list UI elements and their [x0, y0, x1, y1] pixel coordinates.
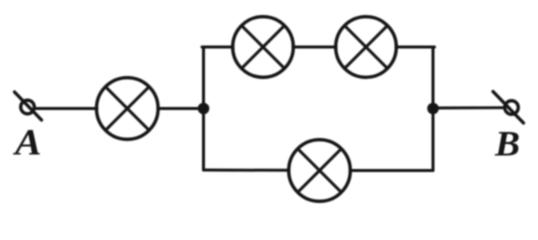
wire bottom-left to lamp L4 — [204, 169, 290, 172]
node 1 junction dot — [198, 103, 210, 115]
wire right vertical branch — [432, 47, 435, 171]
wire L1 to node 1 — [158, 107, 204, 110]
terminal A — [15, 92, 42, 120]
wire L2 to L3 — [293, 46, 336, 49]
svg-text:B: B — [494, 124, 520, 164]
wire L4 to bottom-right corner — [350, 169, 433, 172]
lamp L1 — [97, 78, 159, 140]
wire L3 to top-right corner — [396, 46, 435, 49]
wire node 2 to terminal B — [433, 106, 503, 109]
wire A to lamp L1 — [35, 107, 98, 110]
wire left vertical branch — [202, 47, 205, 170]
node 2 junction dot — [427, 103, 439, 115]
lamp L2 — [233, 17, 294, 78]
terminal B — [493, 92, 524, 124]
lamp L3 — [336, 17, 397, 78]
svg-text:A: A — [13, 123, 42, 164]
lamp L4 — [289, 140, 351, 202]
wire top-left to lamp L2 — [202, 46, 233, 49]
